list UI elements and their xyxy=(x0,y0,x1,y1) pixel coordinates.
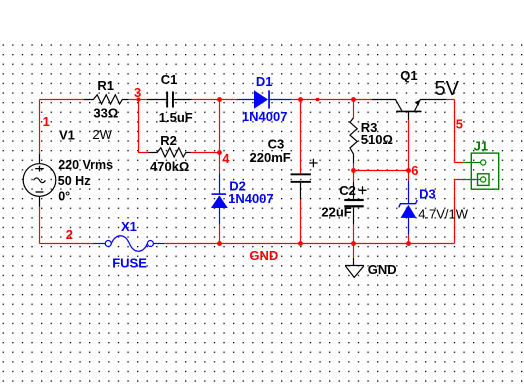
resistor R1 xyxy=(84,95,129,104)
junction bottom C3 xyxy=(298,241,303,246)
svg-text:4.7V/1W: 4.7V/1W xyxy=(418,207,469,222)
svg-text:5V: 5V xyxy=(435,78,460,100)
svg-text:1N4007: 1N4007 xyxy=(242,109,288,124)
svg-text:220mF: 220mF xyxy=(250,150,291,165)
junction bottom D3 xyxy=(406,241,411,246)
wire R3 bottom to node6 xyxy=(353,163,355,170)
capacitor C2 xyxy=(353,181,355,199)
wire C2 top xyxy=(353,171,355,182)
svg-text:6: 6 xyxy=(411,163,418,178)
wire D2 bottom xyxy=(219,224,221,243)
junction top C3 branch xyxy=(298,97,303,102)
resistor R2 xyxy=(148,148,190,157)
junction node6 right xyxy=(406,168,411,173)
wire 5V corner to J1 top xyxy=(455,100,464,163)
svg-text:4: 4 xyxy=(222,151,230,166)
wire R3 top xyxy=(353,100,355,118)
AC source V1 xyxy=(39,154,41,207)
svg-text:X1: X1 xyxy=(121,219,137,234)
svg-text:FUSE: FUSE xyxy=(112,256,147,271)
fuse X1 xyxy=(94,243,106,245)
diode D1 xyxy=(237,99,291,101)
junction node4 xyxy=(217,150,222,155)
wire D3 bottom xyxy=(408,235,410,244)
svg-text:1.5uF: 1.5uF xyxy=(159,110,193,125)
svg-text:22uF: 22uF xyxy=(321,205,351,220)
junction bottom GND xyxy=(351,241,356,246)
resistor R3 xyxy=(350,118,357,164)
svg-text:1: 1 xyxy=(43,114,50,129)
junction small mid xyxy=(316,98,319,101)
svg-text:D1: D1 xyxy=(256,74,273,89)
ground symbol xyxy=(353,258,355,266)
junction bottom D2 xyxy=(217,241,222,246)
svg-text:0°: 0° xyxy=(58,190,70,204)
capacitor C3 xyxy=(291,173,311,175)
svg-text:R1: R1 xyxy=(97,78,114,93)
svg-text:C2: C2 xyxy=(339,183,356,198)
junction top D2 branch xyxy=(217,97,222,102)
wire R2 to node4 xyxy=(191,152,220,154)
svg-text:R2: R2 xyxy=(160,133,177,148)
wire bottom rail xyxy=(40,243,455,245)
junction top R3 branch xyxy=(351,97,356,102)
svg-text:2W: 2W xyxy=(92,127,112,142)
connector J1 xyxy=(471,153,498,189)
svg-text:V1: V1 xyxy=(59,127,75,142)
wire node4 vertical xyxy=(219,100,221,174)
wire left vertical xyxy=(39,100,41,155)
wire C3 bottom xyxy=(300,199,302,243)
svg-text:510Ω: 510Ω xyxy=(361,132,393,147)
svg-text:5: 5 xyxy=(456,117,463,132)
svg-text:33Ω: 33Ω xyxy=(93,106,118,121)
svg-text:GND: GND xyxy=(368,262,397,277)
svg-text:Q1: Q1 xyxy=(400,68,417,83)
wire Q1 base red xyxy=(408,120,410,171)
wire top rail red segments xyxy=(40,99,455,101)
svg-text:GND: GND xyxy=(249,248,278,263)
svg-text:2: 2 xyxy=(66,227,73,242)
wire C2 bottom xyxy=(353,224,355,243)
svg-text:1N4007: 1N4007 xyxy=(228,191,274,206)
wire node6 to D3 xyxy=(408,171,410,181)
wire GND stub red xyxy=(353,244,355,259)
wire below V1 xyxy=(39,207,41,244)
svg-text:50 Hz: 50 Hz xyxy=(58,174,91,188)
svg-text:J1: J1 xyxy=(474,138,488,153)
wire node6 row xyxy=(354,170,409,172)
wire C3 top xyxy=(300,100,302,174)
junction node3 xyxy=(137,98,141,102)
wire J1 bottom corner xyxy=(455,180,464,244)
capacitor C1 xyxy=(147,99,192,101)
svg-text:C1: C1 xyxy=(161,72,178,87)
diode D2 xyxy=(219,174,221,194)
svg-text:D3: D3 xyxy=(419,187,436,202)
transistor Q1 xyxy=(372,100,402,111)
wire node3 vertical xyxy=(139,100,149,153)
zener diode D3 xyxy=(408,181,410,204)
svg-text:220 Vrms: 220 Vrms xyxy=(58,158,113,172)
junction node6 left xyxy=(351,168,356,173)
svg-text:470kΩ: 470kΩ xyxy=(150,159,189,174)
